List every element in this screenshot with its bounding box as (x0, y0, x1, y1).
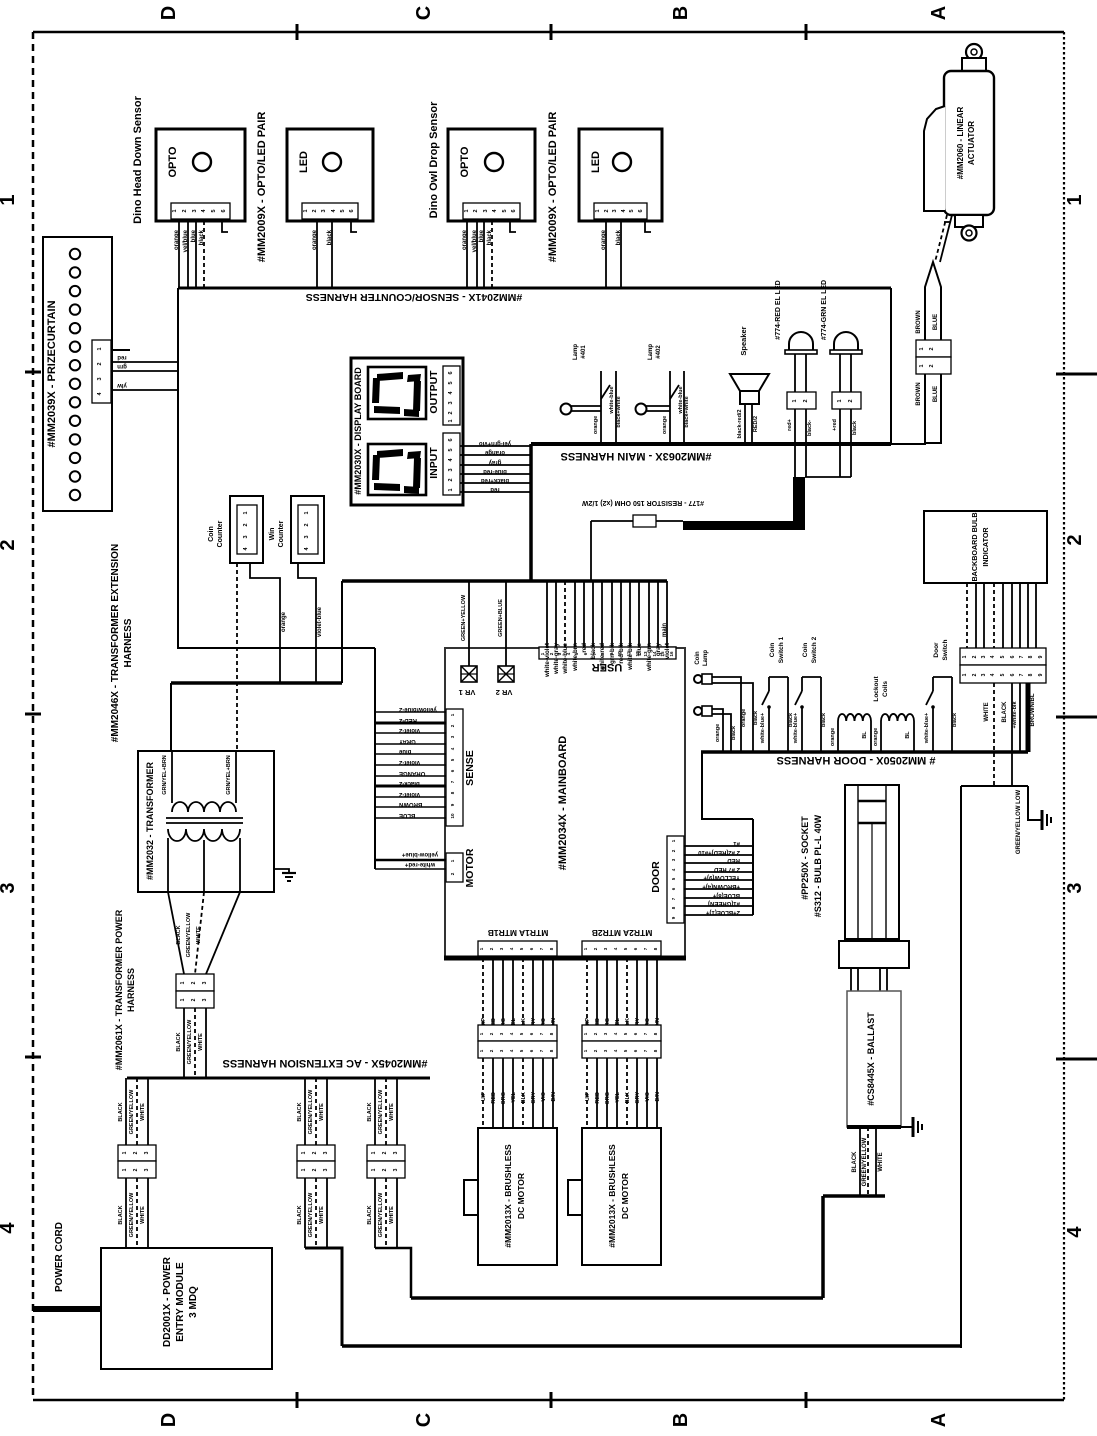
USER connector (539, 647, 676, 659)
svg-text:2: 2 (382, 1151, 388, 1154)
wire secondary lead left (167, 838, 169, 892)
svg-text:black: black (821, 712, 827, 727)
svg-text:#MM2009X - OPTO/LED PAIR: #MM2009X - OPTO/LED PAIR (256, 112, 268, 263)
el led 2 dome (830, 332, 862, 392)
svg-text:black: black (616, 229, 622, 245)
svg-text:WHITE: WHITE (984, 702, 990, 721)
wire plug1 orange (712, 677, 741, 752)
wire resistor to bundle (590, 521, 592, 581)
svg-text:1: 1 (919, 347, 925, 350)
prizecurtain lamp 2 (70, 267, 80, 277)
svg-text:white-violet: white-violet (544, 643, 551, 678)
svg-text:black: black (199, 229, 205, 245)
door harness line (701, 750, 1028, 754)
svg-text:GREEN/YELLOW: GREEN/YELLOW (378, 1192, 384, 1237)
svg-text:WHITE: WHITE (140, 1206, 146, 1224)
svg-text:white-blk: white-blk (627, 642, 634, 670)
svg-text:#MM2013X - BRUSHLESS: #MM2013X - BRUSHLESS (503, 1144, 513, 1248)
svg-text:GRN/YEL+BRN: GRN/YEL+BRN (162, 755, 168, 795)
svg-text:Door: Door (933, 642, 940, 658)
svg-text:Coin: Coin (695, 651, 701, 665)
lockout coil 2 (873, 714, 914, 752)
svg-text:orange: orange (312, 229, 318, 250)
svg-text:2: 2 (191, 998, 197, 1001)
svg-text:B: B (670, 6, 692, 20)
svg-text:1: 1 (448, 488, 454, 491)
svg-text:1: 1 (464, 209, 470, 212)
ac drop 1 wires lower (118, 1178, 148, 1248)
svg-text:1: 1 (371, 1168, 377, 1171)
wire sense blue (375, 753, 446, 755)
svg-text:INPUT: INPUT (428, 447, 440, 479)
svg-text:BROWN: BROWN (916, 382, 922, 405)
wire user 7 (601, 581, 603, 647)
svg-text:#MM2009X - OPTO/LED PAIR: #MM2009X - OPTO/LED PAIR (547, 112, 559, 263)
wire indicator 6 (1011, 583, 1013, 648)
svg-text:#S312 - BULB PL-L 40W: #S312 - BULB PL-L 40W (813, 814, 823, 917)
transformer MM2032 (138, 751, 274, 892)
wire user 13 (657, 581, 659, 647)
wire user 4 (574, 581, 576, 647)
svg-text:GREEN/YELLOW: GREEN/YELLOW (129, 1089, 135, 1134)
svg-text:6: 6 (511, 209, 517, 212)
wire labels ballast (852, 1137, 884, 1186)
svg-text:B: B (670, 1413, 692, 1427)
svg-text:#MM2030X - DISPLAY BOARD: #MM2030X - DISPLAY BOARD (353, 367, 363, 495)
svg-text:ORG: ORG (605, 1092, 611, 1105)
svg-text:WHITE: WHITE (389, 1206, 395, 1224)
svg-text:orange: orange (593, 416, 599, 434)
svg-text:black: black (327, 229, 333, 245)
svg-text:LED: LED (590, 151, 602, 173)
svg-text:INDICATOR: INDICATOR (981, 527, 990, 567)
svg-text:1: 1 (303, 209, 309, 212)
svg-text:5: 5 (502, 209, 508, 212)
wire dino head down OPTO pin (187, 221, 189, 288)
svg-text:DD2001X - POWER: DD2001X - POWER (162, 1256, 173, 1347)
coin switch 1 (762, 677, 788, 752)
svg-text:red: red (490, 486, 500, 492)
unused pin stub (222, 221, 228, 232)
svg-text:9: 9 (1038, 673, 1044, 676)
wire indicator 3 (983, 583, 985, 648)
wire door 3 (684, 862, 753, 864)
svg-text:2: 2 (803, 399, 809, 402)
svg-text:#1(GREEN): #1(GREEN) (708, 900, 740, 906)
7-segment digit 2 (368, 444, 426, 495)
svg-text:3: 3 (243, 535, 249, 538)
svg-text:3: 3 (981, 673, 987, 676)
svg-text:+white-blk: +white-blk (1012, 701, 1018, 729)
svg-text:black-2: black-2 (398, 780, 419, 786)
svg-text:BLUE(8)+: BLUE(8)+ (712, 892, 740, 898)
svg-text:Switch 1: Switch 1 (778, 636, 785, 663)
el led 2 connector (832, 392, 861, 409)
wire plug2 black (712, 714, 731, 752)
win counter (269, 496, 324, 563)
svg-text:WHITE: WHITE (198, 1033, 204, 1051)
svg-text:yel-grn+vio: yel-grn+vio (479, 440, 512, 446)
wire transformer to connector grnyel (195, 892, 204, 974)
svg-text:orange: orange (281, 611, 287, 632)
wire plug1 black (712, 683, 753, 752)
svg-text:DC MOTOR: DC MOTOR (516, 1173, 526, 1219)
svg-text:black+white: black+white (616, 396, 622, 427)
svg-text:WHITE: WHITE (319, 1103, 325, 1121)
wire harness corner to sense (178, 647, 375, 649)
main harness bus (531, 442, 891, 446)
wire user 8 (611, 581, 613, 647)
wire mtr1-4 lower (512, 1058, 514, 1128)
wire white dashed (993, 683, 995, 786)
wire black (1011, 683, 1013, 786)
wire speaker leads (744, 404, 746, 443)
prizecurtain lamp 14 (70, 490, 80, 500)
wire display input black+red (460, 482, 531, 484)
wire indicator 8 (1027, 583, 1029, 648)
svg-text:3: 3 (304, 535, 310, 538)
svg-text:red: red (581, 643, 588, 653)
svg-text:#MM2041X - SENSOR/COUNTER HARN: #MM2041X - SENSOR/COUNTER HARNESS (306, 291, 522, 303)
svg-text:black-: black- (807, 420, 813, 436)
svg-text:5: 5 (448, 448, 454, 451)
svg-text:Coin: Coin (208, 526, 215, 542)
pair1 LED sensor box (287, 129, 373, 221)
svg-text:GRY: GRY (531, 1092, 537, 1104)
wire door harness to connector (702, 752, 753, 819)
prizecurtain connector strip MM2039X (43, 237, 112, 511)
svg-text:#774-RED EL LED: #774-RED EL LED (775, 280, 782, 339)
svg-text:black: black (731, 725, 737, 740)
INPUT connector (443, 433, 460, 495)
wire sense black-2 (375, 785, 446, 788)
wire win counter violet (298, 563, 316, 683)
svg-text:7: 7 (1019, 673, 1025, 676)
pair2 LED sensor box (579, 129, 662, 221)
svg-text:4: 4 (990, 673, 996, 676)
wire secondary lead mid (203, 840, 205, 892)
svg-text:+BROWN(4)+: +BROWN(4)+ (702, 883, 740, 889)
svg-text:2: 2 (604, 209, 610, 212)
svg-text:3 MDQ: 3 MDQ (188, 1286, 199, 1318)
wire ballast grnyel (867, 1127, 869, 1196)
svg-text:+red: +red (832, 419, 838, 431)
svg-text:red: red (117, 354, 127, 360)
wire door 9 (684, 914, 753, 916)
coin counter (208, 496, 263, 563)
svg-text:GREEN/YELLOW LOW: GREEN/YELLOW LOW (1016, 790, 1022, 855)
svg-text:#MM2045X - AC EXTENSION HARNES: #MM2045X - AC EXTENSION HARNESS (223, 1057, 428, 1069)
svg-text:RED-2: RED-2 (398, 717, 417, 723)
svg-text:A: A (928, 6, 950, 20)
svg-text:BLUE: BLUE (399, 812, 415, 818)
svg-text:BLUE: BLUE (933, 314, 939, 330)
thick led bundle vertical (793, 477, 805, 530)
ground symbol ballast (913, 1117, 922, 1137)
wire actuator leads (935, 215, 952, 262)
wire ballast ground (901, 1126, 913, 1128)
wire mtr2-3 upper (606, 958, 608, 1025)
svg-text:2: 2 (133, 1151, 139, 1154)
wire door 1 (684, 845, 753, 847)
svg-text:1: 1 (122, 1168, 128, 1171)
svg-text:1: 1 (962, 655, 968, 658)
svg-text:1: 1 (448, 419, 454, 422)
wire sense BROWN (375, 806, 446, 808)
svg-text:#MM2039X - PRIZECURTAIN: #MM2039X - PRIZECURTAIN (46, 300, 58, 447)
thick led bundle horizontal (683, 521, 805, 530)
svg-text:2: 2 (929, 364, 935, 367)
svg-text:Win: Win (269, 528, 276, 541)
wire brown thick (1026, 683, 1031, 752)
prizecurtain lamp 7 (70, 360, 80, 370)
svg-text:gray: gray (655, 642, 662, 656)
svg-text:blue: blue (191, 229, 197, 242)
svg-text:BROWN/BL: BROWN/BL (1030, 693, 1036, 726)
svg-text:YELLOW(9)+: YELLOW(9)+ (703, 874, 740, 880)
svg-text:2: 2 (133, 1168, 139, 1171)
svg-text:ACTUATOR: ACTUATOR (967, 121, 976, 165)
svg-text:3: 3 (483, 209, 489, 212)
svg-text:1: 1 (837, 399, 843, 402)
svg-text:Lamp: Lamp (703, 650, 709, 666)
svg-text:1: 1 (304, 511, 310, 514)
svg-text:black: black (852, 420, 858, 435)
svg-text:BACKBOARD BULB: BACKBOARD BULB (970, 512, 979, 581)
svg-text:2: 2 (972, 673, 978, 676)
wire transformer drop (170, 683, 172, 751)
wire coin counter orange (250, 563, 280, 683)
wire mtr2-1 lower (586, 1058, 588, 1128)
svg-text:GREEN/YELLOW: GREEN/YELLOW (378, 1089, 384, 1134)
ac drop 2 wires lower (297, 1178, 327, 1248)
ac drop 1 wires upper (118, 1078, 148, 1145)
wire mtr1-7 upper (542, 958, 544, 1025)
svg-text:#MM2034X - MAINBOARD: #MM2034X - MAINBOARD (557, 736, 569, 871)
svg-text:1: 1 (97, 347, 103, 350)
wire pair2 LED pin (620, 221, 622, 288)
wire plug2 orange (712, 709, 723, 752)
wire mtr2-2 upper (596, 958, 598, 1025)
svg-text:red+: red+ (787, 419, 793, 431)
ticket lamp switch 2 switch lever (670, 385, 679, 399)
main board MM2034X (444, 648, 686, 959)
svg-text:RED: RED (727, 857, 740, 863)
svg-text:MTR2A MTR2B: MTR2A MTR2B (592, 928, 653, 938)
user bundle line (342, 579, 667, 583)
wire mtr2-6 upper (636, 958, 638, 1025)
svg-text:BLACK: BLACK (297, 1102, 303, 1121)
wire user 9 (620, 581, 622, 647)
backboard bulb indicator box (924, 511, 1047, 583)
svg-text:#MM2046X - TRANSFORMER EXTENSI: #MM2046X - TRANSFORMER EXTENSION (110, 544, 121, 742)
prizecurtain lamp 12 (70, 453, 80, 463)
svg-text:GREEN+BLUE: GREEN+BLUE (498, 599, 504, 637)
svg-text:3: 3 (192, 209, 198, 212)
svg-text:#774-GRN EL LED: #774-GRN EL LED (821, 280, 828, 340)
prizecurtain lamp 4 (70, 304, 80, 314)
svg-text:2: 2 (97, 362, 103, 365)
svg-text:#MM2032 - TRANSFORMER: #MM2032 - TRANSFORMER (145, 761, 155, 880)
svg-text:blue: blue (636, 642, 643, 655)
svg-text:2: 2 (304, 523, 310, 526)
svg-text:gray: gray (488, 459, 501, 465)
transformer core (166, 818, 243, 823)
svg-text:Counter: Counter (278, 520, 285, 547)
prizecurtain lamp 11 (70, 434, 80, 444)
wire prizecurtain red (111, 361, 178, 363)
prizecurtain lamp 8 (70, 379, 80, 389)
aux 2-pin connector (660, 623, 676, 667)
wire ac drop3 to ballast feed (375, 1248, 411, 1298)
svg-text:VR 1: VR 1 (459, 688, 476, 697)
OUTPUT connector (443, 366, 460, 425)
svg-text:3: 3 (144, 1168, 150, 1171)
wire display input gray (460, 464, 531, 466)
svg-text:3: 3 (323, 1168, 329, 1171)
wire sense violet-2 (375, 796, 446, 798)
svg-text:blue: blue (398, 748, 411, 754)
sensor/counter harness right leg (890, 288, 892, 445)
svg-text:Lamp: Lamp (573, 344, 579, 360)
svg-text:2: 2 (191, 981, 197, 984)
wire indicator 5 (1002, 583, 1004, 648)
unused pin stub (510, 221, 516, 232)
svg-text:1: 1 (301, 1151, 307, 1154)
svg-text:Switch: Switch (942, 639, 949, 660)
transformer primary winding (172, 802, 236, 812)
wire sense ORANGE (375, 775, 446, 777)
ground wire green/yellow (1028, 786, 1042, 820)
speaker horn (730, 374, 769, 404)
ticket lamp switch 1 lamp (561, 404, 602, 415)
svg-text:#MM2063X - MAIN HARNESS: #MM2063X - MAIN HARNESS (561, 450, 712, 462)
svg-text:black: black (952, 712, 958, 727)
ac drop 3 connector pair (367, 1145, 405, 1178)
svg-text:VIO: VIO (645, 1091, 651, 1101)
wire transformer to connector black (168, 892, 184, 974)
wire led2 to bundle (805, 476, 851, 478)
wire ballast black (859, 1127, 861, 1196)
DOOR connector (667, 836, 684, 923)
svg-text:#1: #1 (733, 840, 740, 846)
svg-text:black: black (590, 642, 597, 658)
wire door 6 (684, 888, 753, 890)
ac drop 3 wires upper (367, 1078, 397, 1145)
unused pin stub (645, 221, 651, 232)
el led 1 dome (785, 332, 817, 392)
svg-text:orange: orange (462, 229, 468, 250)
zone ticks bottom (297, 1392, 806, 1408)
svg-text:2: 2 (382, 1168, 388, 1171)
svg-text:10: 10 (450, 813, 455, 819)
svg-text:OPTO: OPTO (167, 146, 179, 177)
wire display input orange (460, 454, 531, 456)
svg-text:Switch 2: Switch 2 (811, 636, 818, 663)
svg-text:GRAY: GRAY (399, 738, 416, 744)
svg-text:GRY: GRY (635, 1092, 641, 1104)
svg-text:BL: BL (905, 731, 911, 739)
wire pair1 LED pin (331, 221, 333, 288)
svg-text:RED/2: RED/2 (753, 416, 759, 432)
wire el led2 leads (839, 409, 841, 477)
wire sense yellow/blue-2 (375, 711, 446, 713)
svg-text:BLACK: BLACK (1002, 701, 1008, 723)
svg-text:2: 2 (312, 209, 318, 212)
wire indicator 2 (975, 583, 977, 648)
svg-text:2: 2 (448, 411, 454, 414)
svg-text:3: 3 (97, 377, 103, 380)
svg-text:DC MOTOR: DC MOTOR (620, 1173, 630, 1219)
svg-text:2: 2 (312, 1151, 318, 1154)
wire prizecurtain grn (111, 370, 178, 372)
svg-text:VIO: VIO (541, 1091, 547, 1101)
wire dino owl drop OPTO pin (466, 221, 468, 288)
svg-text:3: 3 (321, 209, 327, 212)
svg-text:# MM2050X - DOOR HARNESS: # MM2050X - DOOR HARNESS (777, 754, 936, 766)
wire display input red (460, 491, 531, 493)
transformer secondary winding (168, 829, 240, 841)
svg-text:1: 1 (243, 511, 249, 514)
wire dino head down OPTO pin (203, 221, 205, 288)
bulb power bundle left drop (960, 786, 962, 1348)
svg-text:3: 3 (981, 655, 987, 658)
svg-text:yellow/blue-2: yellow/blue-2 (398, 706, 436, 712)
coin switch 2 (795, 677, 821, 752)
svg-text:2: 2 (243, 523, 249, 526)
wire harness to actuator cable (891, 443, 926, 445)
svg-text:1: 1 (301, 1168, 307, 1171)
wire sense RED-2 (375, 722, 446, 725)
svg-text:Coin: Coin (769, 643, 776, 657)
svg-text:#401: #401 (581, 345, 587, 359)
prizecurtain lamp 10 (70, 416, 80, 426)
svg-text:POWER CORD: POWER CORD (54, 1222, 65, 1292)
svg-text:GRN/YEL+BRN: GRN/YEL+BRN (226, 755, 232, 795)
svg-text:4: 4 (1064, 1226, 1086, 1238)
wire display input blue-red (460, 473, 531, 475)
svg-text:grn-blk: grn-blk (609, 642, 616, 664)
prizecurtain 4-pin connector (92, 340, 111, 403)
wire user 2 (555, 581, 557, 647)
ac drop 2 wires upper (297, 1078, 327, 1145)
svg-text:2: 2 (848, 399, 854, 402)
wire user 11 (638, 581, 640, 647)
svg-text:8: 8 (1028, 655, 1034, 658)
svg-text:orange: orange (662, 416, 668, 434)
ballast feed top (823, 1194, 885, 1198)
svg-text:violet-blue: violet-blue (317, 606, 323, 637)
wire secondary lead right (239, 838, 241, 892)
svg-text:white-gray: white-gray (553, 642, 560, 675)
svg-text:MTR1A MTR1B: MTR1A MTR1B (488, 928, 549, 938)
wire user 6 (592, 581, 594, 647)
svg-text:orange: orange (601, 229, 607, 250)
ac drop 1 connector pair (118, 1145, 156, 1178)
svg-text:white-brn: white-brn (572, 643, 579, 672)
svg-text:white-blue: white-blue (562, 642, 569, 674)
svg-text:2: 2 (182, 209, 188, 212)
wire mtr1-6 lower (532, 1058, 534, 1128)
wire pair1 LED pin (316, 221, 318, 288)
svg-text:BLACK: BLACK (852, 1151, 858, 1173)
svg-text:6: 6 (448, 438, 454, 441)
dino head down OPTO sensor box (156, 129, 245, 221)
svg-text:3: 3 (448, 401, 454, 404)
wire mtr1-8 upper (552, 958, 554, 1025)
MOTOR connector (446, 853, 463, 882)
wire pair2 LED pin (605, 221, 607, 288)
